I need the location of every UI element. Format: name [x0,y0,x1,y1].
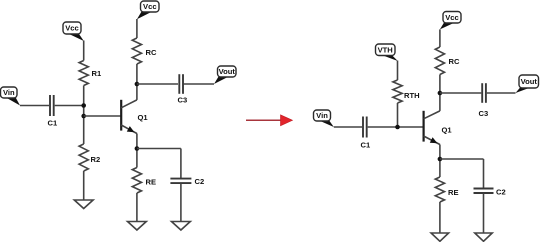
svg-text:Q1: Q1 [442,126,453,135]
svg-text:C3: C3 [178,96,188,105]
svg-text:C1: C1 [48,119,58,128]
svg-text:RE: RE [146,178,157,187]
svg-text:Vin: Vin [3,88,15,97]
svg-text:Vout: Vout [521,77,538,86]
svg-text:C2: C2 [496,188,506,197]
svg-text:C3: C3 [479,109,489,118]
svg-text:Vin: Vin [316,111,328,120]
svg-text:RE: RE [448,188,459,197]
svg-text:VTH: VTH [378,45,393,54]
svg-text:Q1: Q1 [138,113,149,122]
svg-text:Vcc: Vcc [445,13,459,22]
svg-text:Vout: Vout [219,67,236,76]
svg-text:RC: RC [146,48,157,57]
svg-text:C2: C2 [195,177,205,186]
svg-text:RC: RC [449,57,460,66]
svg-text:R1: R1 [92,69,102,78]
svg-text:Vcc: Vcc [65,24,79,33]
svg-text:C1: C1 [361,141,371,150]
svg-text:RTH: RTH [404,91,420,100]
svg-text:R2: R2 [91,155,101,164]
svg-text:Vcc: Vcc [143,2,157,11]
